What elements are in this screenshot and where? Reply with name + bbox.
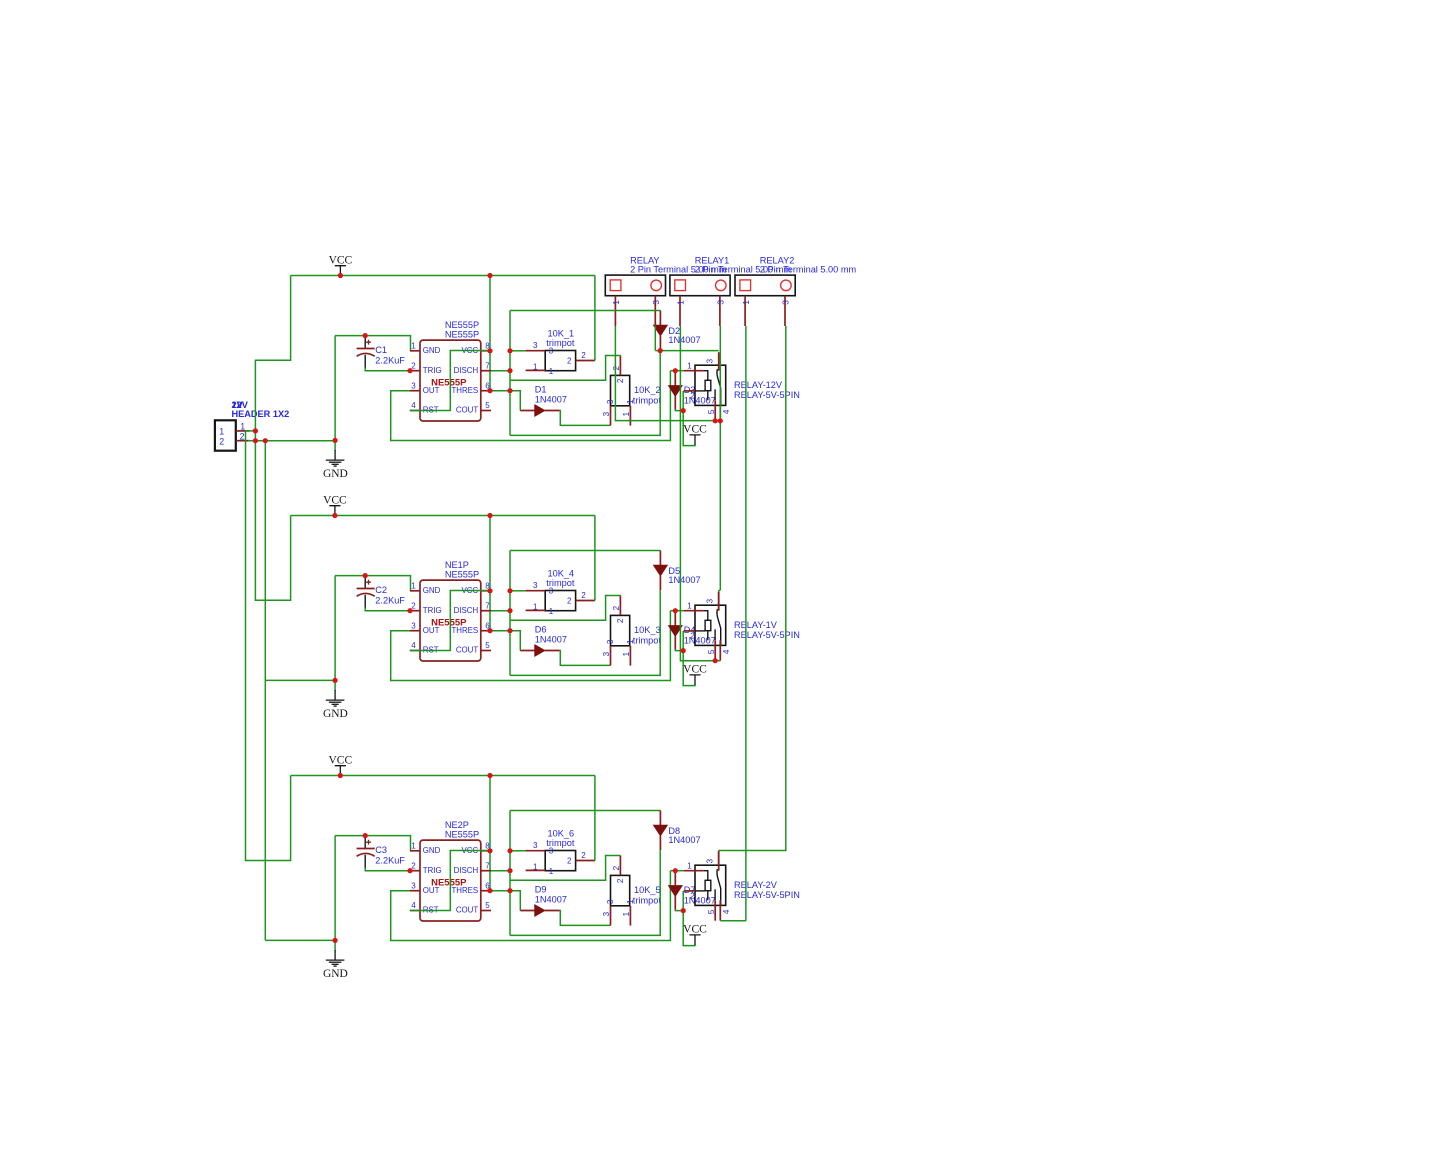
VCC net flag at relay 2: [689, 675, 700, 685]
svg-text:VCC: VCC: [683, 924, 707, 936]
junction D4 cathode / relay pin 2: [681, 648, 686, 653]
svg-text:3: 3: [549, 347, 554, 356]
wire cap bottom to TRIG: [365, 868, 410, 871]
svg-text:TRIG: TRIG: [423, 366, 442, 375]
wire bus to diode D2 anode: [510, 310, 660, 312]
svg-text:1: 1: [687, 602, 692, 611]
wire OUT to relay coil: [391, 371, 671, 441]
svg-text:4: 4: [721, 409, 731, 414]
svg-text:VCC: VCC: [323, 494, 347, 506]
svg-text:1: 1: [621, 412, 631, 417]
wire cap top to GND flag: [334, 576, 336, 681]
junction TRIG: [407, 368, 412, 373]
junction TRIG: [407, 868, 412, 873]
svg-text:10K_6: 10K_6: [548, 828, 575, 838]
wire DISCH: [491, 370, 510, 372]
wire header pin 1 to VCC rail 2: [255, 431, 290, 600]
wire THRES to diode: [491, 891, 520, 911]
wire header pin 1 to VCC rail 3: [246, 431, 291, 861]
svg-text:OUT: OUT: [423, 626, 440, 635]
svg-text:VCC: VCC: [329, 254, 353, 266]
junction D4 anode: [673, 608, 678, 613]
capacitor C2 2.2KuF: [357, 577, 375, 608]
junction THRES / VCC drop: [487, 628, 492, 633]
wire to ground 3: [334, 940, 336, 950]
wire cap top to GND flag: [334, 836, 336, 941]
junction D3 cathode / relay pin 2: [681, 408, 686, 413]
wire rail to trimpot pin 2: [594, 776, 596, 861]
VCC net flag 1: [335, 266, 346, 276]
wire to VCC flag: [683, 411, 695, 446]
svg-text:4: 4: [721, 649, 731, 654]
relay RELAY-1V (RELAY-5V-5PIN): [695, 605, 726, 645]
svg-text:GND: GND: [423, 346, 441, 355]
junction header pin 2 / VCC bus: [253, 438, 258, 443]
svg-text:D1: D1: [535, 385, 547, 395]
svg-text:COUT: COUT: [456, 906, 479, 915]
wire bus to trimpot 2 pin 2: [510, 856, 620, 881]
junction header pin 1: [253, 428, 258, 433]
svg-text:10K_5: 10K_5: [634, 885, 661, 895]
svg-text:2: 2: [411, 861, 416, 870]
svg-text:2: 2: [581, 591, 586, 600]
U1 pin 2 TRIG: [410, 370, 420, 372]
svg-text:1: 1: [533, 603, 538, 612]
svg-text:1: 1: [240, 422, 245, 432]
U1 pin 6 THRES: [481, 390, 491, 392]
wire to relay pin 1: [670, 370, 683, 372]
junction ground 2: [333, 678, 338, 683]
VCC net flag at relay 1: [689, 435, 700, 445]
wire RST to VCC pin: [410, 851, 490, 911]
wire to VCC flag: [683, 651, 695, 686]
wire to relay pin 1: [670, 870, 683, 872]
RELAY1 pin 1: [679, 296, 681, 326]
trimpot 10K_6 10K (horizontal): [545, 851, 575, 871]
junction trimpot pin 3 bus: [507, 848, 512, 853]
svg-text:THRES: THRES: [451, 626, 478, 635]
junction VCC flag: [332, 513, 337, 518]
junction THRES / DISCH bus: [507, 628, 512, 633]
wire DISCH: [491, 610, 510, 612]
svg-text:OUT: OUT: [423, 386, 440, 395]
U3 pin 2 TRIG: [410, 870, 420, 872]
RELAY1 pin 3: [719, 296, 721, 326]
svg-text:trimpot: trimpot: [633, 635, 662, 645]
wire cap bottom to TRIG: [365, 608, 410, 611]
svg-text:D9: D9: [535, 885, 547, 895]
wire terminal pin 3 drop: [654, 326, 656, 351]
svg-text:10K_2: 10K_2: [634, 385, 661, 395]
svg-text:RELAY-5V-5PIN: RELAY-5V-5PIN: [734, 390, 800, 400]
10K_2 pin 1: [629, 406, 631, 426]
wire cap top to GND flag: [334, 336, 336, 441]
svg-text:GND: GND: [323, 708, 348, 720]
svg-text:3: 3: [716, 300, 726, 305]
svg-text:2: 2: [240, 432, 245, 442]
relay RELAY-2V (RELAY-5V-5PIN): [695, 865, 726, 905]
trimpot 10K_1 10K (horizontal): [545, 351, 575, 371]
junction cap top: [363, 333, 368, 338]
relay pin 2: [684, 390, 695, 392]
wire cap top to GND pin: [335, 836, 410, 851]
relay pin 4: [719, 640, 721, 660]
wire relay pin 2 down: [682, 891, 684, 911]
diode D7 1N4007: [674, 871, 676, 910]
U2 pin 4 RST: [410, 650, 420, 652]
svg-text:GND: GND: [423, 586, 441, 595]
svg-text:3: 3: [605, 639, 615, 644]
junction trimpot pin 3 bus: [507, 348, 512, 353]
wire RST to VCC pin: [410, 591, 490, 651]
svg-text:NE555P: NE555P: [445, 829, 479, 839]
svg-text:TRIG: TRIG: [423, 866, 442, 875]
svg-text:3: 3: [533, 841, 538, 850]
svg-text:1N4007: 1N4007: [684, 395, 716, 405]
wire bus bottom to diode cathode: [510, 850, 660, 935]
svg-text:THRES: THRES: [451, 886, 478, 895]
svg-text:VCC: VCC: [683, 424, 707, 436]
svg-text:trimpot: trimpot: [633, 395, 662, 405]
svg-text:NE555P: NE555P: [445, 329, 479, 339]
diode D4 1N4007: [674, 611, 676, 650]
svg-text:2: 2: [690, 392, 695, 401]
svg-text:C2: C2: [375, 585, 387, 595]
RELAY pin 1: [614, 296, 616, 326]
svg-text:COUT: COUT: [456, 646, 479, 655]
wire VCC rail 1: [291, 275, 595, 277]
U3 pin 4 RST: [410, 910, 420, 912]
10K_1 pin 3: [526, 350, 546, 352]
wire VCC rail 3: [291, 775, 595, 777]
U2 pin 8 VCC: [481, 590, 491, 592]
svg-text:1: 1: [549, 867, 554, 876]
svg-text:3: 3: [705, 359, 715, 364]
junction THRES / VCC drop: [487, 388, 492, 393]
U1 pin 1 GND: [410, 350, 420, 352]
IC U3 NE555P timer: [420, 840, 481, 921]
U3 pin 6 THRES: [481, 890, 491, 892]
svg-text:GND: GND: [323, 468, 348, 480]
10K_5 pin 1: [629, 906, 631, 926]
wire bus to trimpot pin 3: [510, 850, 526, 852]
svg-text:OUT: OUT: [423, 886, 440, 895]
wire relay pin 2 down: [682, 631, 684, 651]
IC U1 NE555P timer: [420, 340, 481, 421]
relay pin 2: [684, 890, 695, 892]
svg-text:2: 2: [567, 597, 572, 606]
wire to relay pin 3: [719, 590, 721, 605]
wire control bus vertical: [509, 311, 511, 436]
svg-text:1: 1: [687, 362, 692, 371]
svg-text:1N4007: 1N4007: [535, 894, 567, 904]
svg-text:10K_1: 10K_1: [548, 328, 575, 338]
wire GND bus down: [264, 441, 266, 941]
svg-text:3: 3: [411, 381, 416, 390]
svg-text:HEADER 1X2: HEADER 1X2: [232, 409, 290, 419]
svg-text:1N4007: 1N4007: [668, 575, 700, 585]
svg-text:2.2KuF: 2.2KuF: [375, 855, 405, 865]
wire terminal RELAY2 pin 3 to relay pin 3: [719, 326, 786, 851]
svg-text:3: 3: [411, 881, 416, 890]
junction rail to pin 8: [487, 773, 492, 778]
10K_3 pin 2: [619, 596, 621, 616]
junction trimpot pin 3 bus: [507, 588, 512, 593]
svg-text:7: 7: [485, 861, 490, 870]
junction VCC flag: [338, 273, 343, 278]
trimpot 10K_2 10K (vertical): [611, 375, 630, 405]
junction DISCH bus: [507, 868, 512, 873]
svg-text:1: 1: [549, 367, 554, 376]
VCC net flag 3: [335, 766, 346, 776]
svg-text:1: 1: [411, 342, 416, 351]
wire bus bottom to diode cathode: [510, 590, 660, 675]
relay RELAY-12V (RELAY-5V-5PIN): [695, 365, 726, 405]
wire cap top to GND pin: [335, 576, 410, 591]
junction cap top: [363, 833, 368, 838]
junction TRIG: [407, 608, 412, 613]
svg-text:RELAY-12V: RELAY-12V: [734, 380, 783, 390]
relay pin 5: [714, 640, 716, 660]
junction D2 cathode: [658, 348, 663, 353]
svg-text:3: 3: [651, 300, 661, 305]
svg-text:VCC: VCC: [328, 754, 352, 766]
svg-text:4: 4: [721, 909, 731, 914]
svg-text:1N4007: 1N4007: [668, 335, 700, 345]
IC U2 NE555P timer: [420, 580, 481, 661]
svg-text:2: 2: [411, 361, 416, 370]
svg-text:GND: GND: [323, 968, 348, 980]
svg-text:1: 1: [611, 300, 621, 305]
10K_1 pin 1: [526, 369, 546, 371]
10K_4 pin 1: [526, 609, 546, 611]
ground 3: [326, 950, 345, 966]
wire diode to trimpot 2 pin 3: [560, 911, 611, 926]
10K_2 pin 3: [610, 406, 612, 426]
svg-text:2: 2: [219, 436, 224, 446]
wire to ground 1: [334, 440, 336, 450]
junction VCC pin 8: [487, 848, 492, 853]
wire bus bottom to cathode junction: [510, 351, 660, 436]
U3 pin 7 DISCH: [481, 870, 491, 872]
wire to ground 2: [334, 680, 336, 690]
junction D3 anode: [673, 368, 678, 373]
wire bus to trimpot pin 3: [510, 590, 526, 592]
relay pin 2: [684, 630, 695, 632]
svg-text:3: 3: [533, 341, 538, 350]
svg-text:7: 7: [485, 601, 490, 610]
junction ground 3: [333, 938, 338, 943]
wire bus to trimpot pin 3: [510, 350, 526, 352]
wire header pin 1: [246, 430, 256, 432]
10K_6 pin 1: [526, 869, 546, 871]
wire rail to trimpot pin 2: [594, 516, 596, 601]
wire bus to trimpot 2 pin 2: [510, 356, 620, 381]
svg-text:2: 2: [690, 632, 695, 641]
connector RELAY1 (2 Pin Terminal 5.00 mm): [670, 275, 730, 296]
junction relay pin 5: [713, 418, 718, 423]
U3 pin 8 VCC: [481, 850, 491, 852]
svg-text:5: 5: [706, 409, 716, 414]
svg-text:1: 1: [687, 862, 692, 871]
wire terminal RELAY1 pin 1 to relay contacts: [680, 326, 720, 661]
diode D8 1N4007: [659, 811, 661, 851]
svg-text:1: 1: [676, 300, 686, 305]
svg-text:1: 1: [219, 426, 224, 436]
relay pin 1: [684, 610, 704, 612]
junction VCC pin 8: [487, 348, 492, 353]
svg-text:DISCH: DISCH: [454, 866, 479, 875]
diode D9 1N4007: [520, 910, 559, 912]
svg-text:RELAY-2V: RELAY-2V: [734, 880, 778, 890]
wire rail to VCC pin / THRES: [489, 776, 491, 891]
svg-text:GND: GND: [423, 846, 441, 855]
U2 pin 1 GND: [410, 590, 420, 592]
svg-text:3: 3: [601, 652, 611, 657]
wire to relay pin 3: [655, 350, 718, 352]
connector RELAY (2 Pin Terminal 5.00 mm): [605, 275, 665, 296]
ground 2: [326, 690, 345, 706]
capacitor C3 2.2KuF: [357, 837, 375, 868]
U2 pin 3 OUT: [410, 630, 420, 632]
wire OUT to relay coil: [391, 871, 671, 941]
wire header pin 2 to GND 1: [248, 440, 335, 442]
wire control bus vertical: [509, 551, 511, 676]
svg-text:3: 3: [705, 859, 715, 864]
svg-text:RELAY-5V-5PIN: RELAY-5V-5PIN: [734, 890, 800, 900]
diode D1 1N4007: [520, 410, 559, 412]
U3 pin 5 COUT: [481, 910, 491, 912]
junction VCC pin 8: [487, 588, 492, 593]
trimpot 10K_5 10K (vertical): [611, 875, 630, 905]
svg-text:1: 1: [621, 652, 631, 657]
svg-text:3: 3: [601, 912, 611, 917]
wire D7 cathode: [675, 910, 683, 911]
trimpot 10K_4 10K (horizontal): [545, 591, 575, 611]
wire VCC rail 2: [291, 515, 595, 517]
junction DISCH bus: [507, 608, 512, 613]
RELAY2 pin 3: [784, 296, 786, 326]
svg-text:1: 1: [625, 639, 635, 644]
svg-text:10K_3: 10K_3: [634, 625, 661, 635]
relay pin 3: [718, 852, 720, 871]
relay pin 1: [684, 370, 704, 372]
svg-text:1N4007: 1N4007: [535, 394, 567, 404]
U1 pin 3 OUT: [410, 390, 420, 392]
junction relay pin 4: [718, 418, 723, 423]
wire D4 cathode: [675, 650, 683, 651]
svg-text:3: 3: [549, 847, 554, 856]
junction THRES / DISCH bus: [507, 888, 512, 893]
connector RELAY2 (2 Pin Terminal 5.00 mm): [735, 275, 795, 296]
svg-text:2.2KuF: 2.2KuF: [375, 355, 405, 365]
svg-text:2: 2: [615, 378, 625, 383]
wire OUT to relay coil: [391, 611, 671, 681]
trimpot 10K_3 10K (vertical): [611, 615, 630, 645]
header pin 1: [236, 430, 250, 432]
svg-text:1: 1: [533, 863, 538, 872]
wire GND bus to GND 2: [265, 679, 335, 681]
svg-text:RELAY-5V-5PIN: RELAY-5V-5PIN: [734, 630, 800, 640]
svg-text:3: 3: [601, 412, 611, 417]
relay pin 3: [718, 352, 720, 371]
junction DISCH bus: [507, 368, 512, 373]
junction D7 cathode / relay pin 2: [681, 908, 686, 913]
junction rail to pin 8: [487, 273, 492, 278]
10K_6 pin 3: [526, 850, 546, 852]
relay pin 5: [714, 900, 716, 920]
U1 pin 5 COUT: [481, 410, 491, 412]
junction relay pin 5: [713, 658, 718, 663]
wire DISCH: [491, 870, 510, 872]
RELAY2 pin 1: [744, 296, 746, 326]
U1 pin 4 RST: [410, 410, 420, 412]
wire GND bus to GND 3: [265, 939, 335, 941]
svg-text:2: 2: [581, 851, 586, 860]
svg-text:VCC: VCC: [683, 664, 707, 676]
junction header pin 2 / GND bus: [263, 438, 268, 443]
wire diode to trimpot 2 pin 3: [560, 411, 611, 426]
wire cap top to GND pin: [335, 336, 410, 351]
svg-text:7: 7: [485, 361, 490, 370]
svg-text:2: 2: [567, 857, 572, 866]
svg-text:1: 1: [625, 899, 635, 904]
svg-text:2: 2: [581, 351, 586, 360]
relay pin 3 stub: [718, 592, 720, 611]
svg-text:2: 2: [611, 606, 621, 611]
wire bus to trimpot 2 pin 2: [510, 596, 620, 621]
wire bus to diode D5 anode: [510, 550, 660, 552]
wire terminal RELAY1 pin 3 down (continues): [719, 421, 721, 591]
svg-text:TRIG: TRIG: [423, 606, 442, 615]
10K_2 pin 2: [619, 356, 621, 376]
svg-text:5: 5: [706, 649, 716, 654]
svg-text:3: 3: [705, 599, 715, 604]
U2 pin 2 TRIG: [410, 610, 420, 612]
diode D5 1N4007: [659, 551, 661, 591]
svg-text:NE555P: NE555P: [445, 569, 479, 579]
svg-text:2 Pin Terminal 5.00 mm: 2 Pin Terminal 5.00 mm: [760, 265, 857, 275]
svg-text:3: 3: [605, 399, 615, 404]
svg-text:1: 1: [411, 842, 416, 851]
wire control bus vertical: [509, 811, 511, 936]
RELAY pin 3: [654, 296, 656, 326]
10K_3 pin 1: [629, 646, 631, 666]
svg-text:3: 3: [411, 621, 416, 630]
wire diode to trimpot 2 pin 3: [560, 651, 611, 666]
svg-text:1N4007: 1N4007: [535, 634, 567, 644]
U2 pin 5 COUT: [481, 650, 491, 652]
svg-text:1: 1: [411, 582, 416, 591]
U1 pin 8 VCC: [481, 350, 491, 352]
svg-text:1: 1: [533, 363, 538, 372]
10K_6 pin 2: [576, 860, 595, 862]
10K_1 pin 2: [576, 360, 595, 362]
relay pin 5: [714, 400, 716, 420]
wire to VCC flag: [683, 911, 695, 946]
capacitor C1 2.2KuF: [357, 337, 375, 368]
svg-text:5: 5: [706, 909, 716, 914]
svg-text:DISCH: DISCH: [454, 366, 479, 375]
svg-text:5: 5: [485, 641, 490, 650]
svg-text:1N4007: 1N4007: [684, 635, 716, 645]
junction VCC flag: [338, 773, 343, 778]
relay pin 3: [718, 592, 720, 611]
svg-text:DISCH: DISCH: [454, 606, 479, 615]
svg-text:2: 2: [567, 357, 572, 366]
svg-text:3: 3: [533, 581, 538, 590]
wire RST to VCC pin: [410, 351, 490, 411]
